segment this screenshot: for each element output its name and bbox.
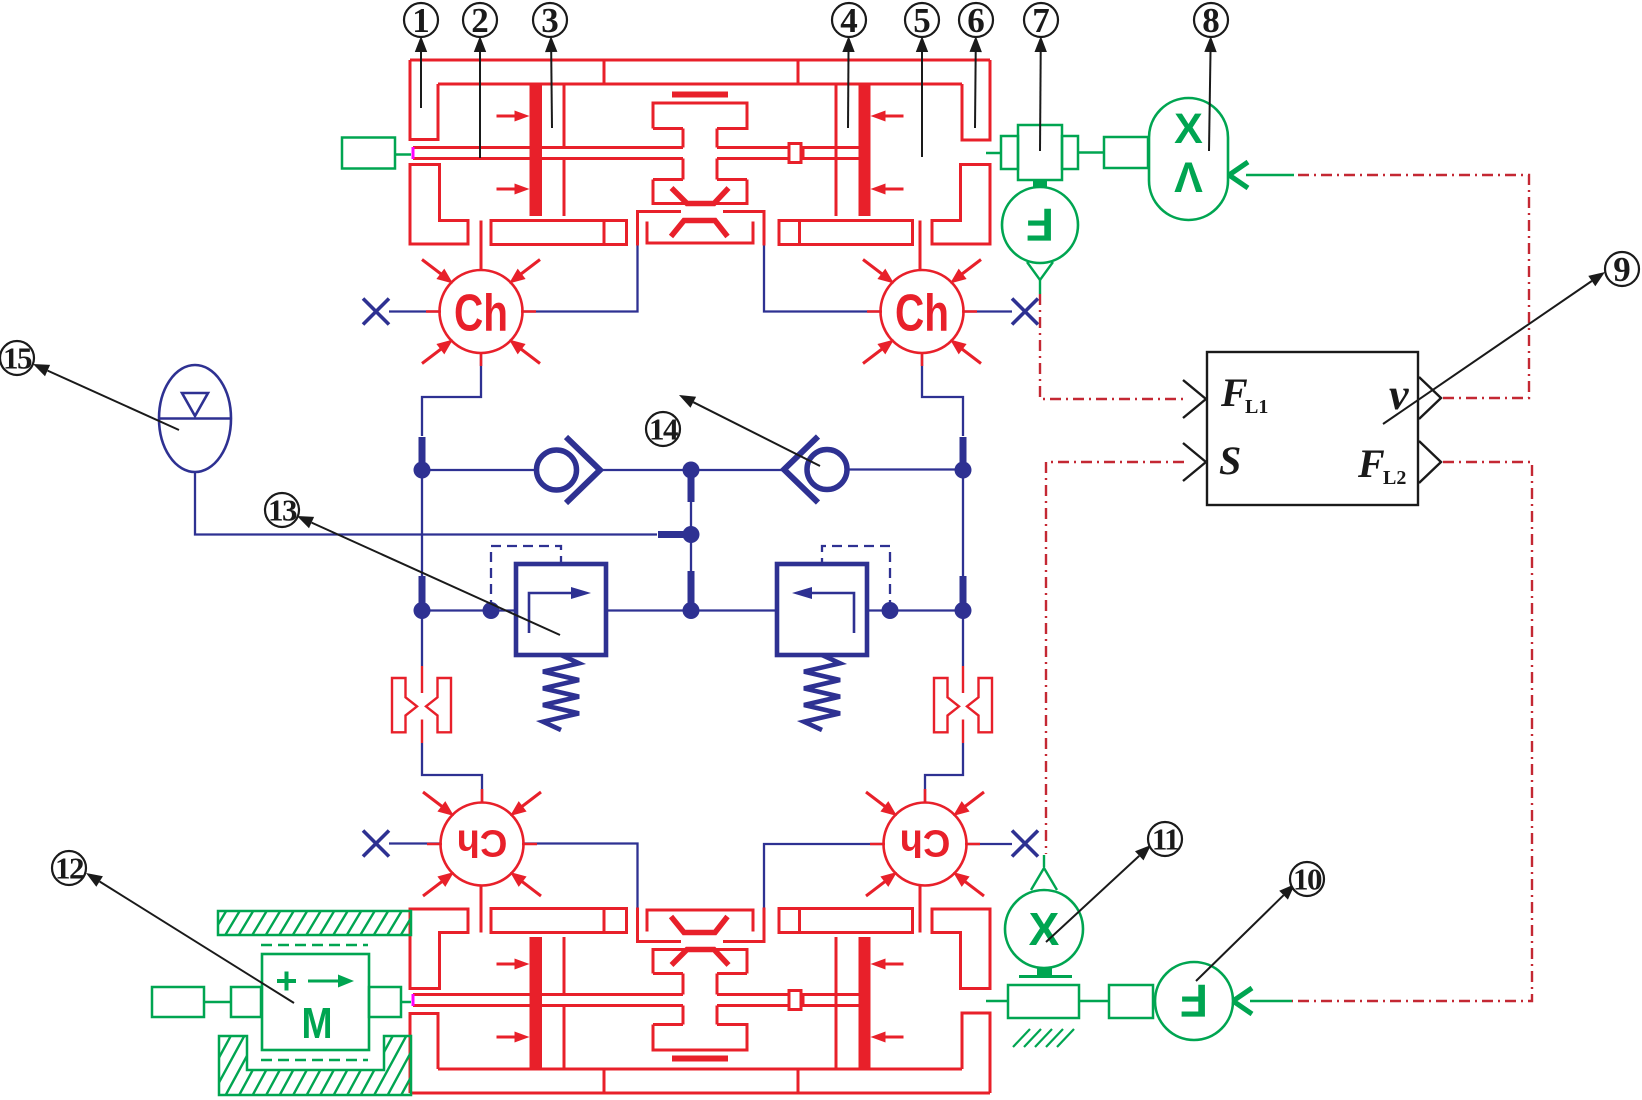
callout 1 — [420, 52, 422, 108]
callout 5 — [921, 52, 923, 157]
relief valve left (item 13) — [516, 564, 606, 655]
relief valve right — [777, 564, 867, 655]
wire: bottom-right Ch connections — [764, 844, 884, 908]
plugged port X symbols — [363, 299, 389, 325]
signal line S input to displacement sensor — [1046, 462, 1184, 854]
svg-text:X: X — [1174, 105, 1203, 153]
svg-text:S: S — [1219, 438, 1241, 483]
coupling housing bottom — [1008, 985, 1079, 1018]
check valve right — [807, 450, 847, 490]
rod marker magenta top — [412, 147, 415, 159]
callout 14 — [693, 402, 820, 466]
wire: right main vertical — [962, 463, 964, 666]
wire: center vertical branch — [690, 470, 692, 611]
svg-text:5: 5 — [913, 1, 931, 40]
hydraulic cylinder block top (items 1-6) — [410, 60, 990, 269]
pilot dashed line right — [822, 546, 890, 610]
callout 10 — [1196, 895, 1284, 981]
svg-text:1: 1 — [412, 1, 430, 40]
heat exchanger Ch top-left — [440, 270, 523, 353]
wire: top-left Ch to cylinder center cup — [523, 246, 638, 312]
svg-text:F: F — [1220, 370, 1248, 415]
svg-text:F: F — [1357, 441, 1385, 486]
spring right relief valve — [804, 655, 840, 730]
callout 8 — [1209, 52, 1211, 151]
ground hatching under coupling — [1013, 1029, 1030, 1047]
heat exchanger Ch bottom-right (rotated) — [884, 803, 967, 886]
pilot dashed line left — [491, 546, 561, 610]
shaft end block top-left — [342, 138, 395, 169]
load model box (item 9) — [1207, 352, 1418, 505]
wire: top-right Ch to right X plug — [964, 310, 1013, 312]
junction dots — [414, 462, 431, 479]
callout 3 — [550, 52, 553, 128]
callout 9 — [1383, 281, 1592, 424]
wire: top-left Ch down to left main line — [422, 353, 481, 436]
port stubs on blue lines — [419, 437, 426, 463]
wire: left X plug to top-left Ch — [389, 310, 440, 312]
rod marker magenta bottom — [412, 994, 415, 1006]
force sensor F top — [1002, 187, 1078, 263]
motor shaft right — [369, 987, 401, 1017]
wire: lower cross line with relief valves — [422, 609, 963, 611]
callout 12 — [100, 882, 294, 1004]
wire: top-right Ch down to right main line — [922, 353, 963, 436]
svg-text:13: 13 — [268, 493, 297, 528]
svg-text:12: 12 — [55, 851, 84, 886]
svg-text:2: 2 — [471, 1, 489, 40]
svg-text:L2: L2 — [1383, 467, 1406, 489]
mount hatched bracket bottom — [219, 1036, 411, 1095]
throttle orifice left — [392, 678, 417, 732]
motor M box (item 12) — [262, 954, 369, 1050]
svg-text:11: 11 — [1152, 822, 1178, 857]
wire: left main vertical — [421, 463, 423, 666]
callout 6 — [974, 52, 977, 128]
svg-text:Ch: Ch — [457, 822, 508, 864]
svg-text:F: F — [1026, 199, 1054, 251]
signal line force sensor to F_L1 — [1040, 294, 1184, 399]
callout 2 — [479, 52, 481, 158]
force sensor F bottom (item 10) — [1155, 962, 1233, 1040]
displacement sensor X bottom (item 11) — [1043, 855, 1045, 867]
green arrow into F bottom — [1233, 988, 1252, 1014]
svg-text:v: v — [1389, 370, 1409, 419]
svg-text:Ch: Ch — [895, 285, 949, 343]
callout 15 — [48, 371, 179, 430]
spring left relief valve — [543, 655, 579, 730]
callout 13 — [312, 523, 560, 635]
heat exchanger Ch top-right — [881, 270, 964, 353]
svg-text:M: M — [302, 999, 333, 1048]
svg-text:6: 6 — [967, 1, 985, 40]
svg-text:7: 7 — [1032, 1, 1050, 40]
svg-text:10: 10 — [1293, 862, 1322, 897]
svg-text:X: X — [1029, 903, 1060, 955]
signal line F_L2 to force sensor bottom — [1292, 462, 1532, 1001]
wire: accumulator line — [195, 472, 657, 535]
svg-text:Ch: Ch — [454, 285, 508, 343]
svg-text:F: F — [1180, 975, 1208, 1027]
svg-text:15: 15 — [3, 341, 32, 376]
svg-text:4: 4 — [840, 1, 858, 40]
check valve left (item 14 group) — [537, 450, 577, 490]
accumulator (item 15) — [159, 365, 231, 472]
svg-text:8: 8 — [1202, 1, 1220, 40]
callout 4 — [847, 52, 850, 128]
green arrow into multiplier — [1229, 162, 1248, 188]
svg-text:9: 9 — [1613, 250, 1631, 289]
motor shaft left — [152, 987, 204, 1017]
wire: top-right Ch to cylinder center cup — [764, 246, 881, 312]
signal line v-output to multiplier — [1294, 175, 1529, 398]
callout 7 — [1039, 52, 1042, 151]
callout 11 — [1046, 856, 1139, 942]
throttle orifice right — [934, 678, 959, 732]
coupling block (item 7) — [986, 152, 1001, 155]
svg-text:3: 3 — [541, 1, 559, 40]
hydraulic cylinder block bottom (mirrored) — [410, 884, 990, 1093]
svg-text:14: 14 — [649, 412, 678, 447]
wire: upper cross line with check valves — [422, 468, 963, 471]
multiplier block X/lambda (item 8) — [1149, 98, 1228, 220]
wire: bottom-left Ch connections — [389, 842, 441, 844]
svg-text:Ch: Ch — [900, 822, 951, 864]
heat exchanger Ch bottom-left (rotated) — [441, 803, 524, 886]
svg-text:Λ: Λ — [1174, 154, 1203, 202]
svg-text:L1: L1 — [1245, 396, 1268, 418]
